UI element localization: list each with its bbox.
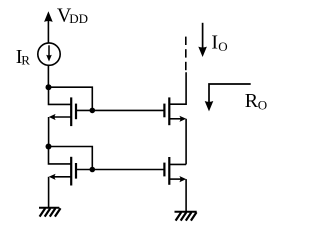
svg-text:O: O: [218, 39, 227, 54]
wire: M2 source down to ground: [48, 177, 50, 208]
RO looking-in arrow: [205, 84, 251, 111]
wire: output node down to M3 drain: [169, 72, 186, 104]
node: M2 gate junction dot: [90, 167, 96, 173]
wire: M4 source down to ground: [185, 179, 187, 211]
wire: M4 drain lead: [169, 163, 186, 165]
svg-text:I: I: [211, 32, 218, 54]
label IR: [16, 46, 30, 68]
label VDD: [57, 5, 88, 27]
dashed output stub: [185, 37, 187, 71]
VDD supply arrow: [44, 11, 53, 42]
svg-text:R: R: [21, 53, 30, 68]
transistor M2 (bottom-left NMOS, mirrored): [49, 157, 76, 186]
ground (left): [39, 208, 61, 217]
transistor M3 (top-right NMOS): [164, 97, 186, 125]
svg-text:R: R: [245, 90, 259, 112]
wire: M3 source down to M4 drain: [185, 119, 187, 165]
wire: node A to M1 gate (right then down): [49, 87, 93, 110]
wire: node B down to M2 drain: [49, 147, 72, 164]
wire: node A down to M1 drain: [49, 87, 72, 104]
ground (right): [175, 212, 197, 221]
wire: bottom gate line M2-M4: [76, 169, 164, 171]
wire: top gate line M1-M3: [76, 109, 164, 111]
wire: M1 source down to node B: [48, 117, 50, 147]
transistor M1 (top-left NMOS, mirrored): [49, 97, 76, 126]
svg-text:DD: DD: [69, 11, 88, 26]
current source IR: [38, 43, 60, 65]
label RO: [245, 90, 267, 113]
node: M1 gate junction dot: [90, 108, 96, 114]
node B (junction dot): [46, 144, 52, 150]
wire: node B to M2 gate (right then down): [49, 147, 93, 170]
node A (junction dot): [46, 84, 52, 90]
label IO: [211, 32, 227, 54]
transistor M4 (bottom-right NMOS): [164, 157, 186, 185]
wire: current source to node A: [47, 65, 49, 87]
IO output arrow: [198, 23, 207, 57]
svg-text:O: O: [258, 97, 267, 112]
